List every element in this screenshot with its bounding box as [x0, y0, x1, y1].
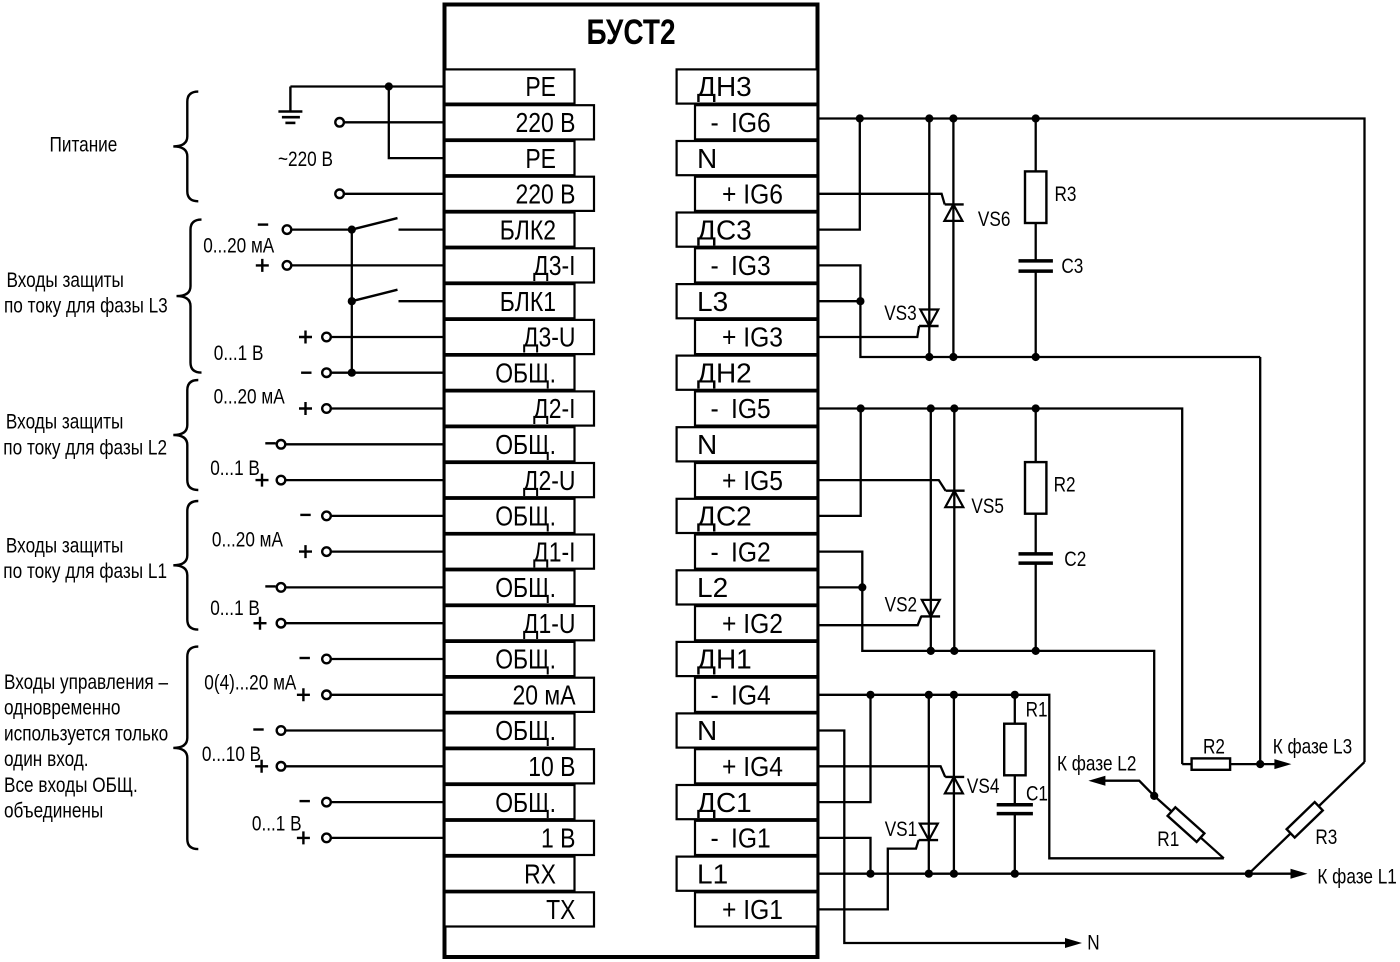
terminal circle 220V row1 — [335, 118, 344, 127]
terminal box left: ОБЩ. (row 20) — [445, 785, 575, 819]
terminal box left: ОБЩ. (row 8) — [445, 356, 575, 390]
sign + row9 — [299, 402, 312, 415]
terminal box left: 10 В (row 19) — [445, 749, 595, 783]
terminal circle ОБЩ row8 — [322, 368, 331, 377]
svg-text:ОБЩ.: ОБЩ. — [495, 502, 556, 533]
resistor R2 horizontal — [1192, 758, 1231, 769]
node К фазе L2 — [1150, 792, 1158, 800]
wire БЛК2 row4 — [291, 228, 352, 230]
svg-text:ДС2: ДС2 — [697, 501, 752, 532]
wire row17 — [331, 694, 445, 696]
terminal circle row11 — [277, 476, 286, 485]
wire gate +IG2 — [818, 616, 922, 625]
svg-text:К фазе L3: К фазе L3 — [1273, 735, 1352, 759]
terminal circle Д3-I row5 — [283, 261, 292, 270]
terminal box left: Д2-U (row 11) — [445, 463, 595, 497]
wire gate +IG6 — [818, 194, 945, 205]
terminal box left: ОБЩ. (row 10) — [445, 427, 575, 461]
svg-text:RX: RX — [524, 859, 556, 890]
switch contact wire БЛК2 — [399, 228, 445, 230]
brace входы защиты L2 — [173, 380, 198, 490]
svg-text:- IG2: - IG2 — [711, 536, 771, 568]
terminal box right: - IG2 (row 13) — [695, 535, 818, 569]
thyristor VS3 line — [928, 119, 930, 358]
capacitor C3 — [1019, 261, 1053, 271]
wire PE branch down to row2 PE — [389, 87, 445, 159]
svg-text:0...20 мА: 0...20 мА — [214, 385, 285, 409]
resistor R1 — [1004, 724, 1025, 776]
svg-text:0...1 В: 0...1 В — [210, 456, 260, 480]
sign plus row5 — [256, 259, 269, 272]
svg-text:ДН3: ДН3 — [697, 71, 752, 102]
node R3 top — [1032, 114, 1040, 122]
wire bottom bus L3 down to K фазе L3 node — [1259, 357, 1261, 764]
wire row19 — [285, 765, 444, 767]
terminal box right: ДН2 (row 8) — [677, 356, 818, 390]
resistor R3 — [1025, 171, 1046, 223]
wire -IG2 down to L2 bottom bus — [818, 552, 1155, 796]
terminal box left: РЕ (row 0) — [445, 69, 575, 103]
node VS2 bottom — [927, 647, 935, 655]
svg-text:0...1 В: 0...1 В — [210, 596, 260, 620]
svg-text:220 В: 220 В — [516, 108, 576, 139]
svg-text:R2: R2 — [1054, 473, 1076, 497]
wire row13 — [331, 550, 445, 552]
switch blade БЛК1 — [352, 290, 398, 302]
terminal box right: L3 (row 6) — [677, 284, 818, 318]
wire К фазе L2 arrow branch — [1105, 781, 1154, 796]
terminal box left: ОБЩ. (row 14) — [445, 570, 575, 604]
node ДС2/top bus — [857, 404, 865, 412]
svg-text:+ IG6: + IG6 — [722, 178, 783, 210]
wire row9 — [331, 407, 445, 409]
terminal circle row10 — [277, 440, 286, 449]
wire 220V row3 — [344, 193, 445, 195]
thyristor VS4 line — [953, 695, 955, 874]
svg-text:TX: TX — [546, 895, 575, 926]
sign + row11 — [256, 474, 269, 487]
terminal circle 220V row3 — [335, 190, 344, 199]
svg-text:VS5: VS5 — [971, 494, 1003, 518]
terminal box left: 220 В (row 3) — [445, 177, 595, 211]
node VS4 top — [950, 691, 958, 699]
terminal circle row12 — [322, 512, 331, 521]
wire -IG1 down to L1 bus — [818, 838, 871, 874]
terminal circle row20 — [322, 798, 331, 807]
wire row15 — [285, 622, 444, 624]
wire row18 — [285, 729, 444, 731]
thyristor VS6 — [945, 203, 964, 205]
svg-text:БЛК2: БЛК2 — [500, 215, 556, 246]
thyristor VS4 — [945, 776, 964, 778]
svg-text:используется только: используется только — [4, 722, 168, 746]
wire gate +IG4 — [818, 766, 946, 777]
svg-text:ОБЩ.: ОБЩ. — [495, 573, 556, 604]
svg-text:0...1 В: 0...1 В — [214, 341, 264, 365]
terminal box right: + IG4 (row 19) — [695, 749, 818, 783]
sign + row19 — [255, 760, 268, 773]
terminal box right: - IG3 (row 5) — [695, 248, 818, 282]
node VS6 top — [949, 114, 957, 122]
svg-text:объединены: объединены — [4, 799, 103, 823]
node C3 bottom — [1032, 353, 1040, 361]
thyristor VS6 line — [952, 119, 954, 358]
ground symbol — [289, 87, 291, 112]
terminal box left: ОБЩ. (row 16) — [445, 642, 575, 676]
wire row14 — [285, 586, 444, 588]
brace входы защиты L1 — [173, 501, 198, 630]
terminal box left: ОБЩ. (row 18) — [445, 713, 575, 747]
sign + row21 — [297, 831, 310, 844]
svg-text:ДС1: ДС1 — [697, 787, 752, 818]
terminal circle Д3-U row7 — [322, 333, 331, 342]
wire -IG5 top bus L2 group — [818, 409, 1183, 765]
brace входы управления — [173, 647, 198, 850]
terminal box right: - IG6 (row 1) — [695, 105, 818, 139]
svg-text:Д1-I: Д1-I — [533, 537, 575, 568]
arrow К фазе L1 — [1291, 869, 1308, 879]
terminal box right: - IG5 (row 9) — [695, 391, 818, 425]
terminal box right: N (row 18) — [677, 713, 818, 747]
arrow К фазе L2 — [1088, 776, 1105, 786]
terminal box right: + IG2 (row 15) — [695, 606, 818, 640]
terminal box right: + IG5 (row 11) — [695, 463, 818, 497]
shared vertical wire L3 inputs — [351, 230, 353, 373]
svg-text:+ IG1: + IG1 — [722, 894, 783, 926]
wire Д3-I row5 — [291, 264, 444, 266]
terminal circle row9 — [322, 404, 331, 413]
svg-text:0...1 В: 0...1 В — [252, 812, 302, 836]
svg-text:VS1: VS1 — [885, 817, 917, 841]
svg-text:К фазе L2: К фазе L2 — [1057, 752, 1136, 776]
terminal box right: - IG1 (row 21) — [695, 821, 818, 855]
terminal box left: 220 В (row 1) — [445, 105, 595, 139]
svg-text:ОБЩ.: ОБЩ. — [495, 645, 556, 676]
svg-text:- IG3: - IG3 — [711, 250, 771, 282]
svg-text:ОБЩ.: ОБЩ. — [495, 716, 556, 747]
wire -IG6 top bus L3 group — [818, 119, 1365, 763]
terminal circle row19 — [277, 762, 286, 771]
svg-text:по току для фазы L3: по току для фазы L3 — [4, 294, 168, 318]
terminal box left: TX (row 23) — [445, 892, 595, 926]
sign + row17 — [297, 688, 310, 701]
snubber line R1C1 — [1014, 695, 1016, 724]
svg-text:К фазе L1: К фазе L1 — [1317, 865, 1396, 889]
switch blade БЛК2 — [352, 218, 398, 230]
svg-text:~220 В: ~220 В — [278, 147, 333, 171]
node К фазе L3 — [1256, 760, 1264, 768]
wire gate +IG3 — [818, 326, 920, 337]
svg-text:+ IG5: + IG5 — [722, 464, 783, 496]
terminal box left: ОБЩ. (row 12) — [445, 499, 575, 533]
arrow N — [1065, 938, 1082, 948]
sign + row15 — [254, 617, 267, 630]
wire -IG3 down to L3 — [818, 265, 1261, 357]
resistor R3 diagonal — [1249, 762, 1365, 874]
thyristor VS2 — [921, 615, 941, 617]
wire L2 terminal — [818, 586, 863, 588]
terminal circle row17 — [322, 691, 331, 700]
terminal box left: Д3-I (row 5) — [445, 248, 595, 282]
svg-text:R3: R3 — [1055, 182, 1077, 206]
svg-text:Д1-U: Д1-U — [523, 609, 576, 640]
svg-text:ДС3: ДС3 — [697, 214, 752, 245]
svg-text:N: N — [697, 429, 717, 460]
junction dot row8 — [348, 369, 356, 377]
node VS3 bottom — [925, 353, 933, 361]
node ДС1/top bus — [866, 691, 874, 699]
sign minus row4 — [258, 223, 268, 225]
wire ОБЩ row8 — [331, 372, 445, 374]
terminal box left: Д2-I (row 9) — [445, 391, 595, 425]
wire L1 bottom bus — [818, 873, 1295, 875]
svg-text:C3: C3 — [1061, 254, 1083, 278]
resistor R2 — [1025, 462, 1046, 514]
svg-text:Все входы ОБЩ.: Все входы ОБЩ. — [4, 773, 138, 797]
terminal box right: N (row 10) — [677, 427, 818, 461]
capacitor C1 — [997, 805, 1033, 814]
wire R2 output branch — [1182, 763, 1191, 765]
sign - row12 — [300, 514, 310, 516]
svg-text:20 мА: 20 мА — [513, 680, 577, 711]
svg-text:+ IG3: + IG3 — [722, 321, 783, 353]
terminal circle БЛК2 row4 — [283, 225, 292, 234]
sign plus row7 — [299, 331, 312, 344]
brace Питание — [173, 92, 198, 202]
svg-text:по току для фазы L2: по току для фазы L2 — [3, 436, 167, 460]
sign minus row8 — [301, 372, 311, 374]
resistor R1 diagonal — [1154, 796, 1224, 858]
terminal box left: Д3-U (row 7) — [445, 320, 595, 354]
svg-text:ДН1: ДН1 — [697, 644, 752, 675]
terminal box left: Д1-I (row 13) — [445, 535, 595, 569]
terminal box right: N (row 2) — [677, 141, 818, 175]
terminal circle row21 — [322, 834, 331, 843]
terminal box right: - IG4 (row 17) — [695, 678, 818, 712]
node C2 bottom — [1032, 647, 1040, 655]
svg-text:- IG1: - IG1 — [711, 822, 771, 854]
wire row20 — [331, 801, 445, 803]
svg-text:N: N — [1087, 931, 1099, 955]
sign + row13 — [299, 545, 312, 558]
node VS3 top — [925, 114, 933, 122]
svg-text:VS2: VS2 — [885, 593, 917, 617]
node R3/L1 — [1245, 870, 1253, 878]
svg-text:РЕ: РЕ — [525, 72, 556, 103]
svg-text:БЛК1: БЛК1 — [500, 287, 556, 318]
svg-text:- IG6: - IG6 — [711, 107, 771, 139]
node R1 top — [1011, 691, 1019, 699]
arrow К фазе L3 — [1274, 759, 1291, 769]
snubber line R3C3 — [1035, 119, 1037, 172]
wire L3 terminal — [818, 300, 861, 302]
terminal box left: RX (row 22) — [445, 857, 575, 891]
svg-text:Д3-U: Д3-U — [523, 323, 576, 354]
wire gate +IG5 — [818, 480, 946, 491]
terminal circle row18 — [277, 726, 286, 735]
svg-text:Питание: Питание — [50, 133, 118, 157]
node R2 top — [1032, 404, 1040, 412]
svg-text:0...20 мА: 0...20 мА — [212, 528, 283, 552]
svg-text:ОБЩ.: ОБЩ. — [495, 430, 556, 461]
thyristor VS1 — [919, 839, 939, 841]
svg-text:N: N — [697, 715, 717, 746]
terminal box left: БЛК2 (row 4) — [445, 213, 575, 247]
wire row21 — [331, 837, 445, 839]
central unit box БУСТ2 — [445, 5, 818, 958]
wire row10 — [285, 443, 444, 445]
terminal box right: ДС3 (row 4) — [677, 213, 818, 247]
terminal box left: 20 мА (row 17) — [445, 678, 595, 712]
terminal circle row16 — [322, 655, 331, 664]
sign - row14 — [265, 585, 275, 587]
svg-text:L1: L1 — [697, 858, 728, 889]
sign - row10 — [265, 442, 275, 444]
terminal box right: L2 (row 14) — [677, 570, 818, 604]
svg-text:по току для фазы L1: по току для фазы L1 — [3, 559, 167, 583]
svg-text:ДН2: ДН2 — [697, 357, 752, 388]
svg-text:один вход.: один вход. — [4, 747, 89, 771]
node ДС3/top bus — [856, 114, 864, 122]
svg-text:N: N — [697, 143, 717, 174]
svg-text:VS3: VS3 — [884, 301, 916, 325]
wire Д3-U row7 — [331, 336, 445, 338]
thyristor VS5 — [946, 490, 965, 492]
junction node PE — [385, 82, 393, 90]
svg-text:VS4: VS4 — [967, 774, 1000, 798]
svg-text:C1: C1 — [1026, 782, 1048, 806]
thyristor VS3 — [919, 325, 939, 327]
terminal box right: + IG1 (row 23) — [695, 892, 818, 926]
svg-text:Входы защиты: Входы защиты — [7, 268, 124, 292]
svg-text:одновременно: одновременно — [4, 696, 120, 720]
brace входы защиты L3 — [177, 220, 202, 373]
svg-text:VS6: VS6 — [978, 207, 1010, 231]
svg-text:L2: L2 — [697, 572, 728, 603]
node -IG1/L1 — [866, 870, 874, 878]
svg-text:Д3-I: Д3-I — [533, 251, 575, 282]
junction dot row6 — [348, 297, 356, 305]
terminal box left: 1 В (row 21) — [445, 821, 595, 855]
node VS1 bottom — [925, 870, 933, 878]
svg-text:Входы защиты: Входы защиты — [6, 410, 123, 434]
svg-text:10 В: 10 В — [528, 752, 575, 783]
node VS4 bottom — [950, 870, 958, 878]
terminal box right: ДН3 (row 0) — [677, 69, 818, 103]
switch contact wire БЛК1 — [399, 300, 445, 302]
sign - row20 — [300, 800, 310, 802]
node VS1 top — [925, 691, 933, 699]
wire ДС2 to top bus — [818, 409, 861, 516]
terminal box left: Д1-U (row 15) — [445, 606, 595, 640]
node L2/-IG2 — [858, 583, 866, 591]
thyristor VS2 line — [930, 409, 932, 651]
wire ДС3 to top bus — [818, 119, 860, 230]
svg-text:0(4)...20 мА: 0(4)...20 мА — [204, 671, 296, 695]
terminal box right: + IG3 (row 7) — [695, 320, 818, 354]
wire 220V row1 — [344, 121, 445, 123]
svg-text:ОБЩ.: ОБЩ. — [495, 788, 556, 819]
svg-text:ОБЩ.: ОБЩ. — [495, 358, 556, 389]
svg-text:R1: R1 — [1157, 827, 1179, 851]
node VS5 bottom — [950, 647, 958, 655]
svg-text:+ IG4: + IG4 — [722, 751, 783, 783]
svg-text:0...20 мА: 0...20 мА — [203, 234, 274, 258]
terminal box left: БЛК1 (row 6) — [445, 284, 575, 318]
terminal box right: + IG6 (row 3) — [695, 177, 818, 211]
svg-text:РЕ: РЕ — [525, 144, 556, 175]
wire ДС1 to top bus — [818, 695, 871, 802]
terminal box right: ДН1 (row 16) — [677, 642, 818, 676]
wire PE row0 from ground to box — [290, 85, 444, 87]
terminal box left: РЕ (row 2) — [445, 141, 575, 175]
svg-text:Входы защиты: Входы защиты — [6, 534, 123, 558]
svg-text:Д2-U: Д2-U — [523, 466, 576, 497]
junction dot row4 — [348, 226, 356, 234]
svg-text:- IG4: - IG4 — [711, 679, 771, 711]
wire -IG4 top bus L1 group — [818, 695, 1224, 859]
node VS2 top — [927, 404, 935, 412]
terminal circle row14 — [277, 583, 286, 592]
wire row16 — [331, 658, 445, 660]
wire row11 — [285, 479, 444, 481]
svg-text:R3: R3 — [1315, 825, 1337, 849]
svg-text:L3: L3 — [697, 286, 728, 317]
wire gate +IG1 — [818, 840, 919, 909]
svg-text:БУСТ2: БУСТ2 — [586, 12, 675, 52]
sign - row18 — [253, 728, 263, 730]
node L3/-IG3 — [856, 297, 864, 305]
svg-text:R2: R2 — [1203, 735, 1225, 759]
svg-text:- IG5: - IG5 — [711, 393, 771, 425]
svg-text:Д2-I: Д2-I — [533, 394, 575, 425]
terminal circle row15 — [277, 619, 286, 628]
svg-text:220 В: 220 В — [516, 179, 576, 210]
capacitor C2 — [1019, 554, 1053, 563]
node C1 bottom — [1011, 870, 1019, 878]
svg-text:+ IG2: + IG2 — [722, 607, 783, 639]
node VS6 bottom — [949, 353, 957, 361]
terminal box right: ДС2 (row 12) — [677, 499, 818, 533]
sign - row16 — [300, 657, 310, 659]
thyristor VS5 line — [953, 409, 955, 651]
wire N terminal to N output — [818, 731, 1066, 944]
terminal box right: L1 (row 22) — [677, 857, 818, 891]
snubber line R2C2 — [1035, 409, 1037, 463]
terminal circle row13 — [322, 547, 331, 556]
node VS5 top — [950, 404, 958, 412]
terminal box right: ДС1 (row 20) — [677, 785, 818, 819]
thyristor VS1 line — [928, 695, 930, 874]
svg-text:1 В: 1 В — [541, 824, 575, 855]
svg-text:C2: C2 — [1064, 547, 1086, 571]
wire row12 — [331, 515, 445, 517]
svg-text:R1: R1 — [1026, 698, 1048, 722]
svg-text:Входы управления –: Входы управления – — [4, 670, 168, 694]
svg-text:0...10 В: 0...10 В — [202, 742, 261, 766]
